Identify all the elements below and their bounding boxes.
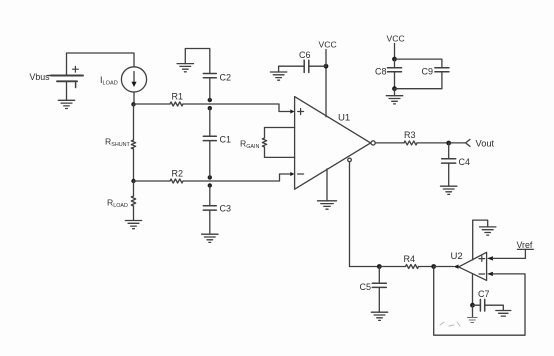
wire VCC stub right block [394,44,396,60]
label R1 [172,92,184,102]
label Vbus [30,72,51,82]
junction dot lower pair top [208,175,212,179]
wire U2 minus feedback loop [434,267,525,336]
label RLOAD [107,198,128,209]
resistor RSHUNT [131,140,135,149]
U1 minus sign [298,173,304,175]
ground above C2 [177,64,193,72]
wire C7 node down [472,305,474,317]
svg-text:Vout: Vout [476,139,495,149]
label Vref underline [518,248,534,250]
resistor RLOAD [131,196,135,206]
wire C9 loop [395,59,442,89]
label U1 [338,113,350,124]
Vout open arrow [466,139,470,146]
svg-text:C4: C4 [459,157,471,167]
wire U1 ground pin [326,169,328,201]
current source arrow [133,72,135,84]
wire left column lower [133,149,135,181]
ground left of C6 [270,72,286,80]
junction dot upper pair bottom [208,106,212,110]
wire C5 node to R4 [379,266,405,268]
svg-text:VCC: VCC [319,39,337,49]
label C6 [299,50,311,60]
node A junction dot [131,102,135,106]
watermark smudge [440,322,460,326]
svg-text:R1: R1 [172,92,184,102]
wire C2 top hook [185,49,210,74]
wire C6 right to VCC node [309,65,326,67]
wire C6 left to ground [279,66,305,72]
svg-text:C6: C6 [299,50,311,60]
label C4 [459,157,471,167]
resistor R2 [170,179,183,183]
wire RGAIN bottom side [265,156,295,158]
wire Vbus label tick [48,75,53,77]
label VCC right block [387,33,405,43]
label Vout [476,139,495,149]
wire Vout node to arrow [449,142,466,144]
wire C5 to ground [378,287,380,312]
label RSHUNT [105,137,130,148]
ground above U2 [480,227,496,235]
wire Vref to U2 plus [493,249,526,258]
pin arrow U1 plus [290,109,294,113]
resistor RGAIN [262,128,266,158]
label C3 [220,204,232,214]
svg-text:C8: C8 [375,67,387,77]
capacitor C1 [203,136,216,140]
wire R3 to Vout node [417,142,449,144]
junction dot upper pair top [208,98,212,102]
pin arrow U2 plus [487,256,493,260]
ground under Vbus [58,100,74,108]
junction dot C8 bottom [392,86,397,91]
svg-text:R2: R2 [172,169,184,179]
resistor R4 [406,265,419,269]
ground under U1 [318,201,337,209]
label ILOAD [100,75,118,87]
wire middle column to U1 plus input [210,104,290,112]
wire C8 bottom [394,72,396,89]
ground right of C7 [496,311,511,317]
ground under C8 [386,96,402,104]
svg-text:U2: U2 [451,251,463,262]
capacitor C5 [372,283,386,287]
pin arrow U2 minus [487,272,493,276]
wire C4 to ground [448,163,450,186]
wire node A to R1 [134,103,171,105]
svg-text:VCC: VCC [387,33,405,43]
ground under C5 [371,312,387,320]
ground under RLOAD [125,221,141,229]
capacitor C6 [304,60,309,72]
wire R1 to middle column [183,103,210,105]
label R4 [404,254,416,264]
svg-text:C5: C5 [360,282,372,292]
svg-text:Vref: Vref [517,240,533,250]
wire current source to node A [133,92,135,104]
label C2 [220,73,232,83]
op-amp U2 [459,252,487,280]
label R2 [172,169,184,179]
U2 minus sign [479,273,485,275]
wire U2 bottom pin down [472,274,474,306]
wire battery top to current source [67,53,135,76]
current source ILOAD [121,67,146,92]
junction dot C7 [470,303,475,308]
U1 output circle [371,141,375,145]
label VCC U1 [319,39,337,49]
junction dot C5 [377,264,382,269]
battery Vbus [51,76,83,82]
label C7 [478,289,490,299]
label RGAIN [240,139,260,150]
svg-text:C1: C1 [220,135,232,145]
capacitor C4 [442,159,456,163]
junction dot lower pair bottom [208,183,212,187]
label C9 [422,67,434,77]
wire C3 to ground [209,210,211,234]
svg-text:C2: C2 [220,73,232,83]
battery minus tick [75,83,77,88]
wire C8 top [394,59,396,68]
small ground below U2 [468,318,478,323]
junction dot Vout [446,141,451,146]
capacitor C7 [480,299,484,311]
wire C7 right to ground [485,305,504,310]
wire junction to C3 [209,186,211,206]
label C5 [360,282,372,292]
wire RGAIN top side [265,127,295,129]
svg-text:U1: U1 [338,113,350,124]
pin arrow U2 output [453,265,458,269]
label C1 [220,135,232,145]
wire battery bottom stem [66,81,68,100]
wire Vout node to C4 [448,143,450,159]
junction dot C8 top [392,57,397,62]
wire C2 to junction [209,78,211,100]
capacitor C2 [203,74,216,78]
label C8 [375,67,387,77]
label R3 [404,130,416,140]
svg-text:C7: C7 [478,289,490,299]
node B junction dot [131,179,135,183]
resistor R1 [170,102,183,106]
wire U2 top pin to ground [473,220,488,260]
wire node B to R2 [134,180,171,182]
wire C5 node down [378,267,380,284]
capacitor C9 [435,68,449,72]
wire VCC stub [325,50,327,67]
junction dot U2 output [431,264,436,269]
wire junction to C1 [209,108,211,136]
wire node B to RLOAD [133,181,135,196]
wire left column upper [133,104,135,140]
wire U1 feedback pin down [349,162,351,267]
ground under C3 [202,234,218,242]
wire U1 output to R3 [375,142,404,144]
op-amp U1 [295,97,371,190]
svg-text:R3: R3 [404,130,416,140]
resistor R3 [404,141,417,145]
svg-text:C9: C9 [422,67,434,77]
U2 plus sign [479,256,485,262]
battery plus sign [73,66,79,72]
wire RLOAD to ground [133,206,135,221]
wire U1 feedback corner to C5 node [350,266,380,268]
wire R4 to U2 output node [419,266,434,268]
wire U2 output node to arrow [434,266,454,268]
wire R2 to middle column [183,180,210,182]
label U2 [451,251,463,262]
wire C8 to ground [394,89,396,96]
junction dot VCC U1 [324,64,329,69]
ground under C4 [441,186,457,194]
U1 plus sign [298,109,304,115]
wire U1 VCC pin [325,66,327,117]
wire C1 to lower junction [209,141,211,178]
capacitor C3 [203,206,216,210]
svg-text:C3: C3 [220,204,232,214]
wire C7 left [473,304,481,306]
label Vref [517,240,533,250]
svg-text:Vbus: Vbus [30,72,51,82]
pin arrow U1 minus [290,172,294,176]
svg-text:R4: R4 [404,254,416,264]
wire middle column to U1 minus input [210,174,290,181]
U1 feedback pin circle [348,158,352,162]
capacitor C8 [388,68,402,72]
